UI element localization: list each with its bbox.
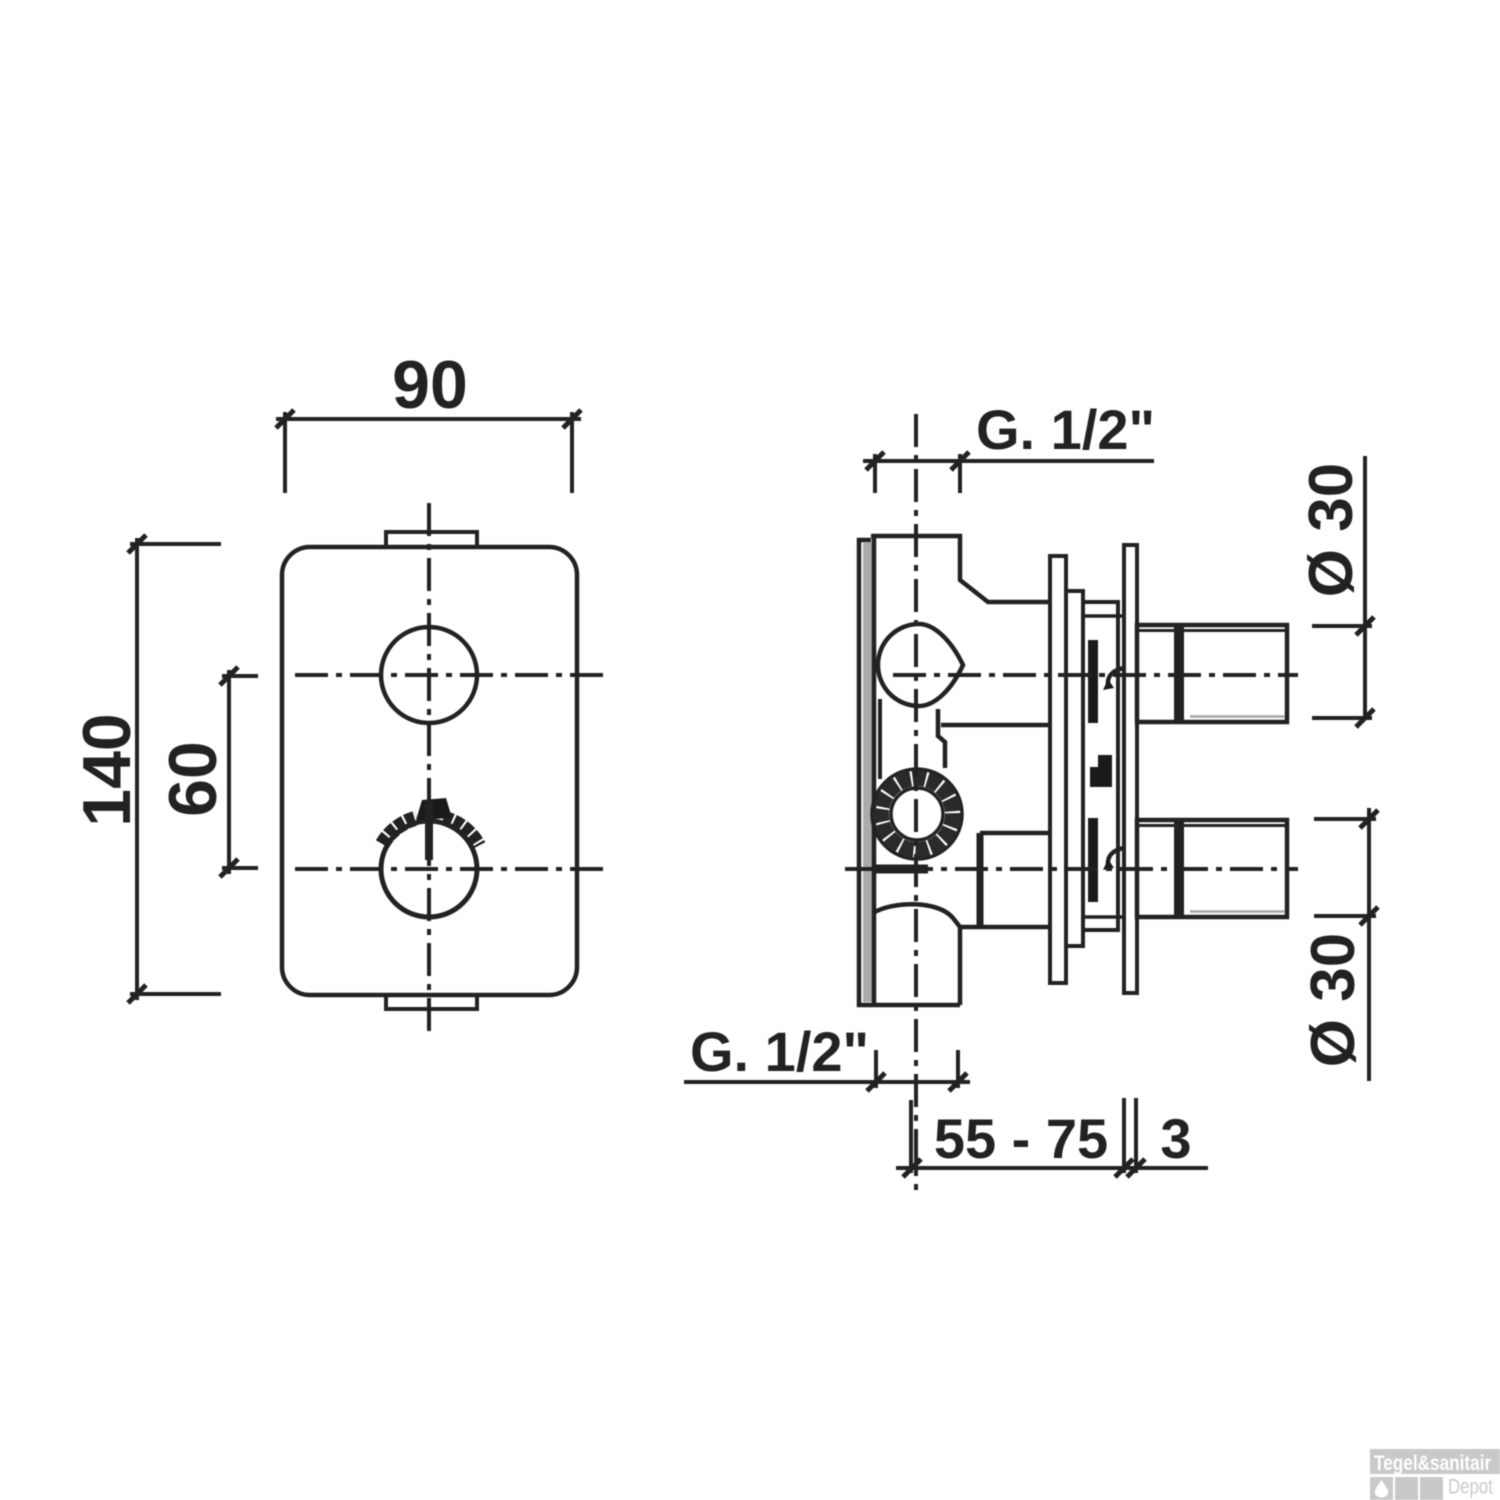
side view mounting plate B bbox=[1066, 591, 1083, 946]
front view upper horizontal centerline bbox=[295, 673, 605, 677]
dimension 140 line bbox=[135, 538, 139, 1000]
front view lower horizontal centerline bbox=[295, 867, 605, 871]
logo drop icon bbox=[1375, 1480, 1388, 1498]
side view serrated ring inner bbox=[891, 788, 943, 840]
side view wall plate inner edge bbox=[872, 536, 877, 1005]
dimension diameter 30 bottom line bbox=[1367, 808, 1371, 1081]
front view upper knob circle bbox=[381, 627, 477, 723]
dimension 60 tick top bbox=[220, 667, 238, 685]
dimension diameter 30 top tick upper bbox=[1356, 617, 1374, 635]
front view plate bbox=[282, 547, 577, 995]
dimension 60 line bbox=[227, 670, 231, 874]
dimension 140 tick top bbox=[128, 535, 146, 553]
side view upper port egg bbox=[878, 624, 963, 706]
dimension 90 extension left bbox=[283, 412, 287, 493]
side view cartridge inner bottom lip bbox=[1083, 915, 1124, 919]
side view serrated ring outer bbox=[872, 769, 962, 859]
svg-text:Depot: Depot bbox=[1448, 1476, 1493, 1499]
dimension 60 extension bottom bbox=[222, 866, 258, 870]
dimension G 1/2 bottom extension right bbox=[956, 1050, 960, 1088]
front view top tab bbox=[386, 532, 477, 547]
side view vertical centerline bbox=[914, 414, 918, 1190]
side view wall plate bbox=[859, 540, 960, 1005]
side view upper duct bottom bbox=[938, 709, 1050, 768]
side view body top edge right bbox=[871, 536, 1050, 602]
svg-text:90: 90 bbox=[392, 347, 468, 423]
dimension G 1/2 bottom extension left bbox=[874, 1050, 878, 1088]
dimension 3 extension right bbox=[1134, 1098, 1138, 1173]
logo square 3 bbox=[1420, 1477, 1443, 1500]
side view lower horizontal centerline bbox=[845, 867, 1298, 871]
side view cartridge block bbox=[1083, 602, 1118, 930]
dimension 90 tick right bbox=[563, 410, 581, 428]
dimension 140 extension bottom bbox=[130, 992, 221, 996]
dimension 90 extension right bbox=[570, 412, 574, 493]
side view lower outlet pipe bbox=[1137, 820, 1287, 917]
side view mounting plate A bbox=[1050, 556, 1066, 983]
svg-text:60: 60 bbox=[155, 741, 231, 817]
front view lower knob circle bbox=[381, 821, 477, 917]
side view bold center segment bbox=[876, 865, 928, 874]
front view handle grip arc left bbox=[382, 818, 416, 844]
dimension G 1/2 top extension left bbox=[873, 454, 877, 493]
dimension G 1/2 bottom tick left bbox=[867, 1073, 885, 1091]
side view black square bbox=[1090, 755, 1112, 787]
dimension 90 line bbox=[276, 417, 581, 421]
svg-text:Ø 30: Ø 30 bbox=[1299, 933, 1368, 1067]
side view upper pipe inner top wall bbox=[1139, 629, 1285, 632]
dimension G 1/2 bottom line bbox=[684, 1080, 970, 1084]
front view bottom tab bbox=[386, 995, 477, 1009]
dimension diameter 30 top line bbox=[1363, 456, 1367, 718]
side view lower pipe inner top wall bbox=[1139, 824, 1285, 827]
side view serrated ring band bbox=[881, 778, 953, 850]
svg-text:G. 1/2": G. 1/2" bbox=[976, 398, 1155, 461]
dimension 3 tick left bbox=[1115, 1159, 1133, 1177]
side view cartridge inner top lip bbox=[1083, 614, 1124, 618]
dimension diameter 30 bottom stub upper bbox=[1314, 817, 1376, 821]
dimension 55-75 extension left bbox=[909, 1100, 913, 1173]
dimension 140 extension top bbox=[130, 542, 221, 546]
side view upper pipe bold divider bbox=[1174, 625, 1184, 722]
dimension diameter 30 bottom tick upper bbox=[1360, 810, 1378, 828]
side view escutcheon plate bbox=[1124, 545, 1137, 993]
side view wall plate shading bbox=[863, 542, 876, 1002]
dimension 55-75 tick left bbox=[903, 1159, 921, 1177]
svg-text:3: 3 bbox=[1160, 1107, 1191, 1170]
logo band bbox=[1370, 1449, 1500, 1474]
side view lower duct bottom bbox=[960, 925, 1050, 930]
dimension 55-75 line bbox=[896, 1166, 1208, 1170]
dimension G 1/2 bottom tick right bbox=[949, 1073, 967, 1091]
front view handle pointer stem bbox=[425, 802, 433, 860]
dimension diameter 30 top tick lower bbox=[1356, 709, 1374, 727]
dimension G 1/2 top tick left bbox=[866, 452, 884, 470]
side view lower duct left bold edge bbox=[977, 833, 984, 927]
logo square 2 bbox=[1395, 1477, 1418, 1500]
svg-text:G. 1/2": G. 1/2" bbox=[690, 1020, 869, 1083]
side view upper pipe inner bottom wall bbox=[1190, 715, 1285, 718]
dimension 3 extension left bbox=[1122, 1098, 1126, 1173]
dimension 90 tick left bbox=[276, 410, 294, 428]
side view upper black bar bbox=[1088, 640, 1098, 723]
dimension G 1/2 top extension right bbox=[958, 454, 962, 493]
dimension diameter 30 bottom tick lower bbox=[1360, 907, 1378, 925]
dimension diameter 30 bottom stub lower bbox=[1314, 914, 1376, 918]
front view handle pointer bbox=[416, 798, 452, 820]
dimension 3 tick right bbox=[1127, 1159, 1145, 1177]
dimension diameter 30 top stub upper bbox=[1312, 624, 1372, 628]
side view lower pipe inner bottom wall bbox=[1190, 910, 1285, 913]
dimension 60 extension top bbox=[222, 674, 258, 678]
dimension diameter 30 top stub lower bbox=[1312, 716, 1372, 720]
front view vertical centerline bbox=[427, 503, 431, 1032]
side view upper outlet pipe bbox=[1137, 625, 1287, 722]
dimension 140 tick bottom bbox=[128, 985, 146, 1003]
logo square with drop bbox=[1370, 1477, 1393, 1500]
dimension 60 tick bottom bbox=[220, 859, 238, 877]
svg-text:55 - 75: 55 - 75 bbox=[934, 1107, 1108, 1170]
side view lower hook arrow bbox=[1108, 848, 1124, 865]
side view lower hook arrowhead bbox=[1103, 859, 1114, 870]
side view lower dome outline bbox=[873, 904, 960, 1005]
side view lower pipe bold divider bbox=[1174, 820, 1184, 917]
side view lower duct top bbox=[980, 831, 1050, 836]
side view lower black bar bbox=[1088, 818, 1098, 902]
svg-text:140: 140 bbox=[69, 713, 145, 826]
side view upper hook arrow bbox=[1108, 668, 1124, 685]
side view upper hook arrowhead bbox=[1103, 679, 1114, 690]
side view upper horizontal centerline bbox=[893, 673, 1298, 677]
dimension G 1/2 top line bbox=[863, 459, 1154, 463]
dimension G 1/2 top tick right bbox=[951, 452, 969, 470]
svg-text:Ø 30: Ø 30 bbox=[1297, 463, 1366, 597]
svg-text:Tegel&sanitair: Tegel&sanitair bbox=[1374, 1451, 1492, 1475]
side view neck below egg bbox=[878, 699, 882, 779]
front view handle grip arc right bbox=[443, 818, 478, 846]
